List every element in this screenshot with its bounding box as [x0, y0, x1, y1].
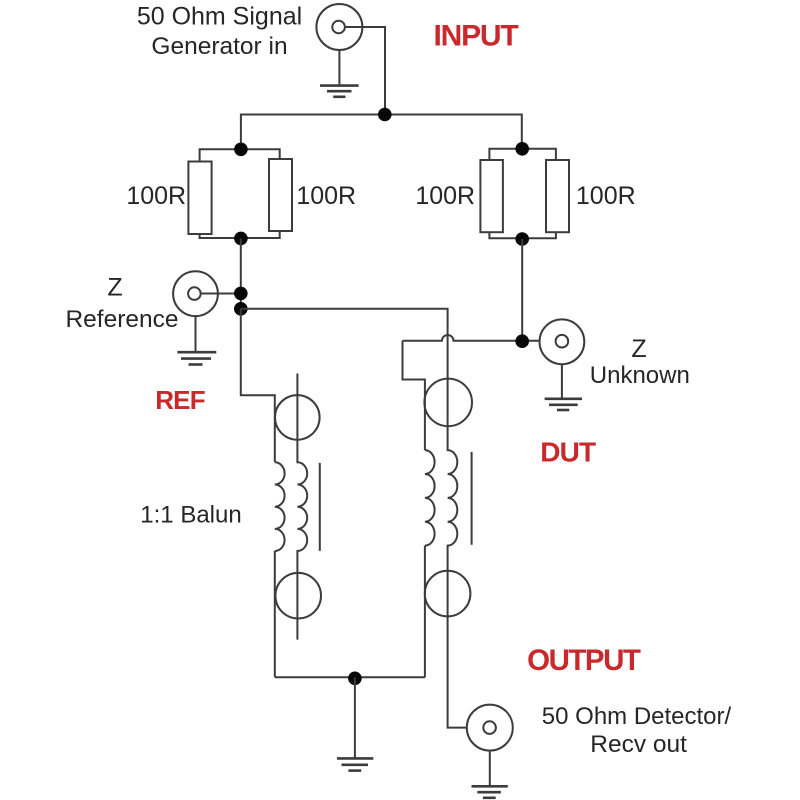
resistor R2 100R [269, 159, 292, 231]
svg-text:1:1 Balun: 1:1 Balun [140, 502, 241, 529]
wire T1 through line with right winding coil [297, 374, 307, 640]
resistor R3 100R [480, 160, 503, 232]
wire right bridge bottom to DUT node [521, 239, 523, 341]
ground G4 under J4 [472, 751, 508, 798]
svg-text:Z: Z [107, 274, 122, 302]
svg-text:Generator in: Generator in [151, 33, 287, 60]
wire left bridge bottom to Z reference node [240, 238, 242, 308]
label Z Unknown [590, 335, 690, 389]
wire right bridge bottom connections [489, 232, 556, 238]
connector J4 output BNC [467, 705, 513, 751]
svg-text:Recv out: Recv out [590, 731, 687, 758]
label Z Reference [65, 274, 178, 334]
transformer T2 bottom bead circle [425, 571, 471, 617]
svg-text:Unknown: Unknown [590, 362, 690, 389]
svg-text:100R: 100R [576, 182, 636, 210]
svg-text:INPUT: INPUT [433, 20, 518, 53]
junction dot input node [378, 108, 392, 122]
junction dot bottom rail [348, 672, 362, 686]
svg-text:Reference: Reference [65, 306, 178, 333]
transformer T2 core line [471, 452, 473, 545]
inductor T1 left winding coil [275, 462, 285, 551]
label 50 Ohm Detector Recv out [542, 703, 732, 758]
wire T1 left winding down to bottom rail [274, 551, 276, 677]
junction dot left bridge bottom [234, 232, 248, 246]
wire left bridge top connections [200, 149, 280, 161]
ground G1 under J1 [320, 50, 359, 97]
junction dot DUT node [515, 334, 529, 348]
ground G2 under J2 [177, 316, 216, 364]
wire DUT rail with hop over through line [403, 335, 556, 341]
connector J3 Z unknown BNC [540, 319, 585, 364]
wire J2 to node [201, 293, 240, 295]
wire J1 to input node [345, 27, 385, 115]
junction dot left bridge top [234, 143, 248, 157]
resistor R1 100R [188, 162, 211, 235]
transformer T1 top bead circle [275, 395, 320, 440]
svg-text:50 Ohm Signal: 50 Ohm Signal [137, 3, 302, 31]
transformer T2 top bead circle [424, 379, 472, 427]
svg-text:100R: 100R [296, 182, 356, 210]
wire bottom rail [275, 676, 425, 678]
svg-text:100R: 100R [126, 182, 186, 210]
transformer T1 core line [319, 463, 321, 551]
wire REF tap to T2 through line down to output [241, 309, 484, 728]
svg-text:50 Ohm Detector/: 50 Ohm Detector/ [542, 703, 732, 730]
ground G3b under bottom rail [337, 678, 373, 771]
junction dot J2 node [234, 287, 248, 301]
ground G3 under J3 [545, 364, 582, 410]
svg-text:Z: Z [631, 335, 646, 363]
wire right bridge top connections [489, 149, 556, 160]
label 50 Ohm Signal Generator in [137, 3, 302, 60]
svg-text:100R: 100R [415, 182, 475, 210]
connector J1 input BNC [316, 4, 362, 50]
svg-text:OUTPUT: OUTPUT [527, 644, 641, 677]
transformer T1 bottom bead circle [275, 573, 321, 619]
resistor R4 100R [546, 160, 569, 232]
svg-text:REF: REF [155, 385, 205, 415]
wire main input rail [241, 115, 522, 150]
junction dot right bridge top [515, 142, 529, 156]
svg-text:DUT: DUT [540, 437, 596, 468]
wire T2 left winding down to bottom rail [424, 546, 426, 678]
junction dot right bridge bottom [515, 232, 529, 246]
wire DUT rail into T2 left winding [403, 341, 425, 450]
wire REF node into T1 left winding [241, 309, 275, 463]
junction dot REF tap node [234, 302, 248, 316]
connector J2 Z reference BNC [173, 271, 218, 316]
wire left bridge bottom connections [200, 231, 280, 238]
inductor T2 left winding coil [425, 450, 435, 545]
